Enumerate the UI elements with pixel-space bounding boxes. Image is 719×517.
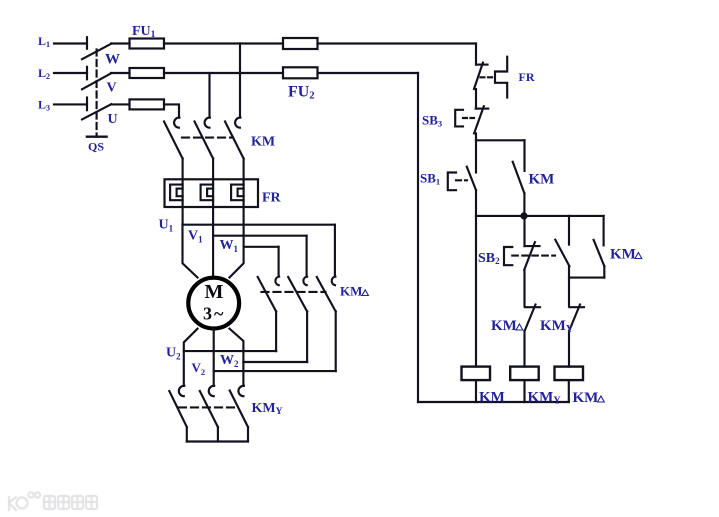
relay FR linkage (dashed) — [481, 76, 496, 78]
svg-text:FR: FR — [519, 70, 535, 84]
button SB3 actuator — [455, 110, 463, 127]
wire L3 lead-in — [54, 103, 87, 105]
contactor KM-Y pole 3 — [238, 386, 243, 396]
contactor KM-Y pole 1 — [179, 386, 184, 396]
svg-text:V: V — [107, 81, 117, 96]
svg-text:KM: KM — [573, 390, 599, 406]
contactor KM main pole 3 — [235, 118, 240, 128]
svg-text:KM: KM — [491, 318, 517, 334]
contactor KM-delta pole 2 — [306, 236, 308, 277]
junction dot node B — [520, 212, 527, 219]
fuse FU1 pole 3 — [130, 99, 165, 109]
wire coil bottoms — [476, 380, 569, 402]
contactor KM main pole 1 — [174, 118, 179, 128]
wire motor to V2 — [213, 329, 215, 386]
wire L1 to FU1 — [111, 42, 130, 44]
contactor KM-delta pole 1 — [278, 247, 280, 277]
button SB3 (stop, NC) — [476, 108, 489, 110]
switch QS pole 1 fixed contact — [86, 37, 88, 49]
contact KM-delta aux label triangle — [635, 253, 642, 259]
wire U1 line — [183, 207, 335, 225]
button SB3 linkage (dashed) — [463, 117, 474, 119]
wire KM-delta aux parallel join — [569, 277, 604, 279]
fuse FU2 pole 1 — [283, 38, 318, 49]
button SB2 NC part — [523, 216, 525, 246]
switch QS pole 3 blade — [82, 104, 111, 119]
wire branch L1 down to KM pole 3 — [239, 44, 241, 118]
wire U1 to motor — [183, 225, 198, 278]
wire U2 line — [184, 350, 276, 352]
button SB1 (start, NO) — [475, 140, 477, 172]
svg-text:W: W — [105, 52, 120, 68]
svg-text:KM: KM — [610, 247, 636, 263]
switch QS handle bar — [87, 135, 107, 137]
thermal relay FR box — [165, 179, 259, 207]
wire V1 line — [213, 207, 307, 236]
switch QS pole 2 fixed contact — [86, 67, 88, 80]
switch QS pole 1 blade — [82, 44, 111, 60]
svg-text:KM: KM — [479, 390, 505, 406]
contactor KM-delta pole 3 — [334, 225, 336, 277]
coil KM-Y — [510, 367, 539, 381]
wire L1 bus to control corner — [164, 42, 283, 44]
contactor KM-delta linkage (dashed) — [262, 291, 326, 293]
wire branch L2 down to KM pole 2 — [208, 73, 210, 118]
wire L1 lead-in — [54, 42, 87, 44]
svg-text:KM: KM — [251, 135, 275, 150]
thermal relay FR element 3 — [231, 185, 244, 201]
contact KM aux (NO self-hold) — [513, 162, 525, 194]
switch QS linkage (dashed) — [96, 50, 98, 137]
svg-text:QS: QS — [88, 140, 104, 154]
contactor KM-Y pole 2 — [209, 386, 214, 396]
wire W1 line — [244, 207, 279, 247]
thermal relay FR element 1 — [170, 185, 183, 201]
wire L2 bus — [164, 72, 283, 74]
svg-text:M: M — [205, 281, 224, 303]
wire W2 line — [243, 361, 307, 363]
svg-text:U: U — [108, 112, 118, 127]
contact KM-Y interlock (NC) — [570, 306, 585, 308]
coil KM — [462, 367, 491, 381]
contactor KM-delta label triangle — [362, 290, 368, 296]
coil KM-delta — [555, 367, 584, 381]
button SB2 linkage (dashed) — [512, 255, 555, 257]
contact KM-delta aux (NO self-hold) — [603, 216, 605, 246]
wire node B rail — [476, 215, 604, 217]
thermal relay FR element 2 — [201, 185, 214, 201]
fuse FU1 pole 2 — [130, 68, 165, 78]
button SB1 linkage (dashed) — [456, 179, 467, 181]
contact KM-delta interlock (NC) — [525, 306, 540, 308]
contactor KM-Y linkage (dashed) — [179, 406, 237, 408]
wire L3 to FU1 — [111, 103, 130, 105]
wire bottom rail — [418, 401, 569, 403]
wire motor to W2 — [230, 329, 244, 386]
switch QS pole 2 blade — [82, 73, 111, 89]
wire motor to U2 — [184, 329, 198, 386]
wire KM coil drop — [475, 216, 477, 367]
contactor KM linkage (dashed) — [182, 137, 233, 139]
watermark — [9, 492, 97, 510]
button SB1 actuator — [448, 173, 456, 191]
svg-text:KM: KM — [340, 284, 362, 299]
wire L2 to FU1 — [111, 72, 130, 74]
wire W1 to motor — [230, 247, 244, 278]
svg-text:FR: FR — [262, 190, 282, 205]
contactor KM main pole 2 — [205, 118, 210, 128]
wire V2 line — [214, 370, 336, 372]
wire branch to KM aux — [476, 139, 525, 141]
switch QS pole 3 fixed contact — [86, 98, 88, 111]
wire L3 to KM pole 1 — [164, 104, 179, 117]
wire V1 to motor — [212, 236, 214, 278]
motor M circle — [188, 278, 239, 329]
svg-text:3~: 3~ — [203, 304, 224, 324]
svg-text:KM: KM — [529, 172, 555, 188]
wire control left drop (L2) — [417, 73, 419, 402]
button SB2 NO part — [568, 216, 570, 245]
fuse FU2 pole 2 — [283, 67, 318, 78]
button SB2 actuator — [504, 247, 512, 265]
wire control right drop (L1) — [475, 44, 477, 65]
relay contact FR (NC) in control — [476, 64, 488, 66]
fuse FU1 pole 1 — [130, 39, 165, 49]
wire L2 lead-in — [54, 72, 87, 74]
contactor KM-Y star bar — [187, 440, 248, 442]
contact KM-delta interlock label triangle — [516, 324, 523, 330]
relay FR trip flag — [495, 57, 507, 98]
coil KM-delta label triangle — [598, 396, 605, 402]
